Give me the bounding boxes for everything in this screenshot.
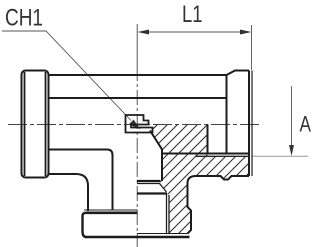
svg-text:L1: L1 xyxy=(182,1,203,28)
svg-text:A: A xyxy=(300,112,312,137)
svg-text:CH1: CH1 xyxy=(5,5,43,32)
